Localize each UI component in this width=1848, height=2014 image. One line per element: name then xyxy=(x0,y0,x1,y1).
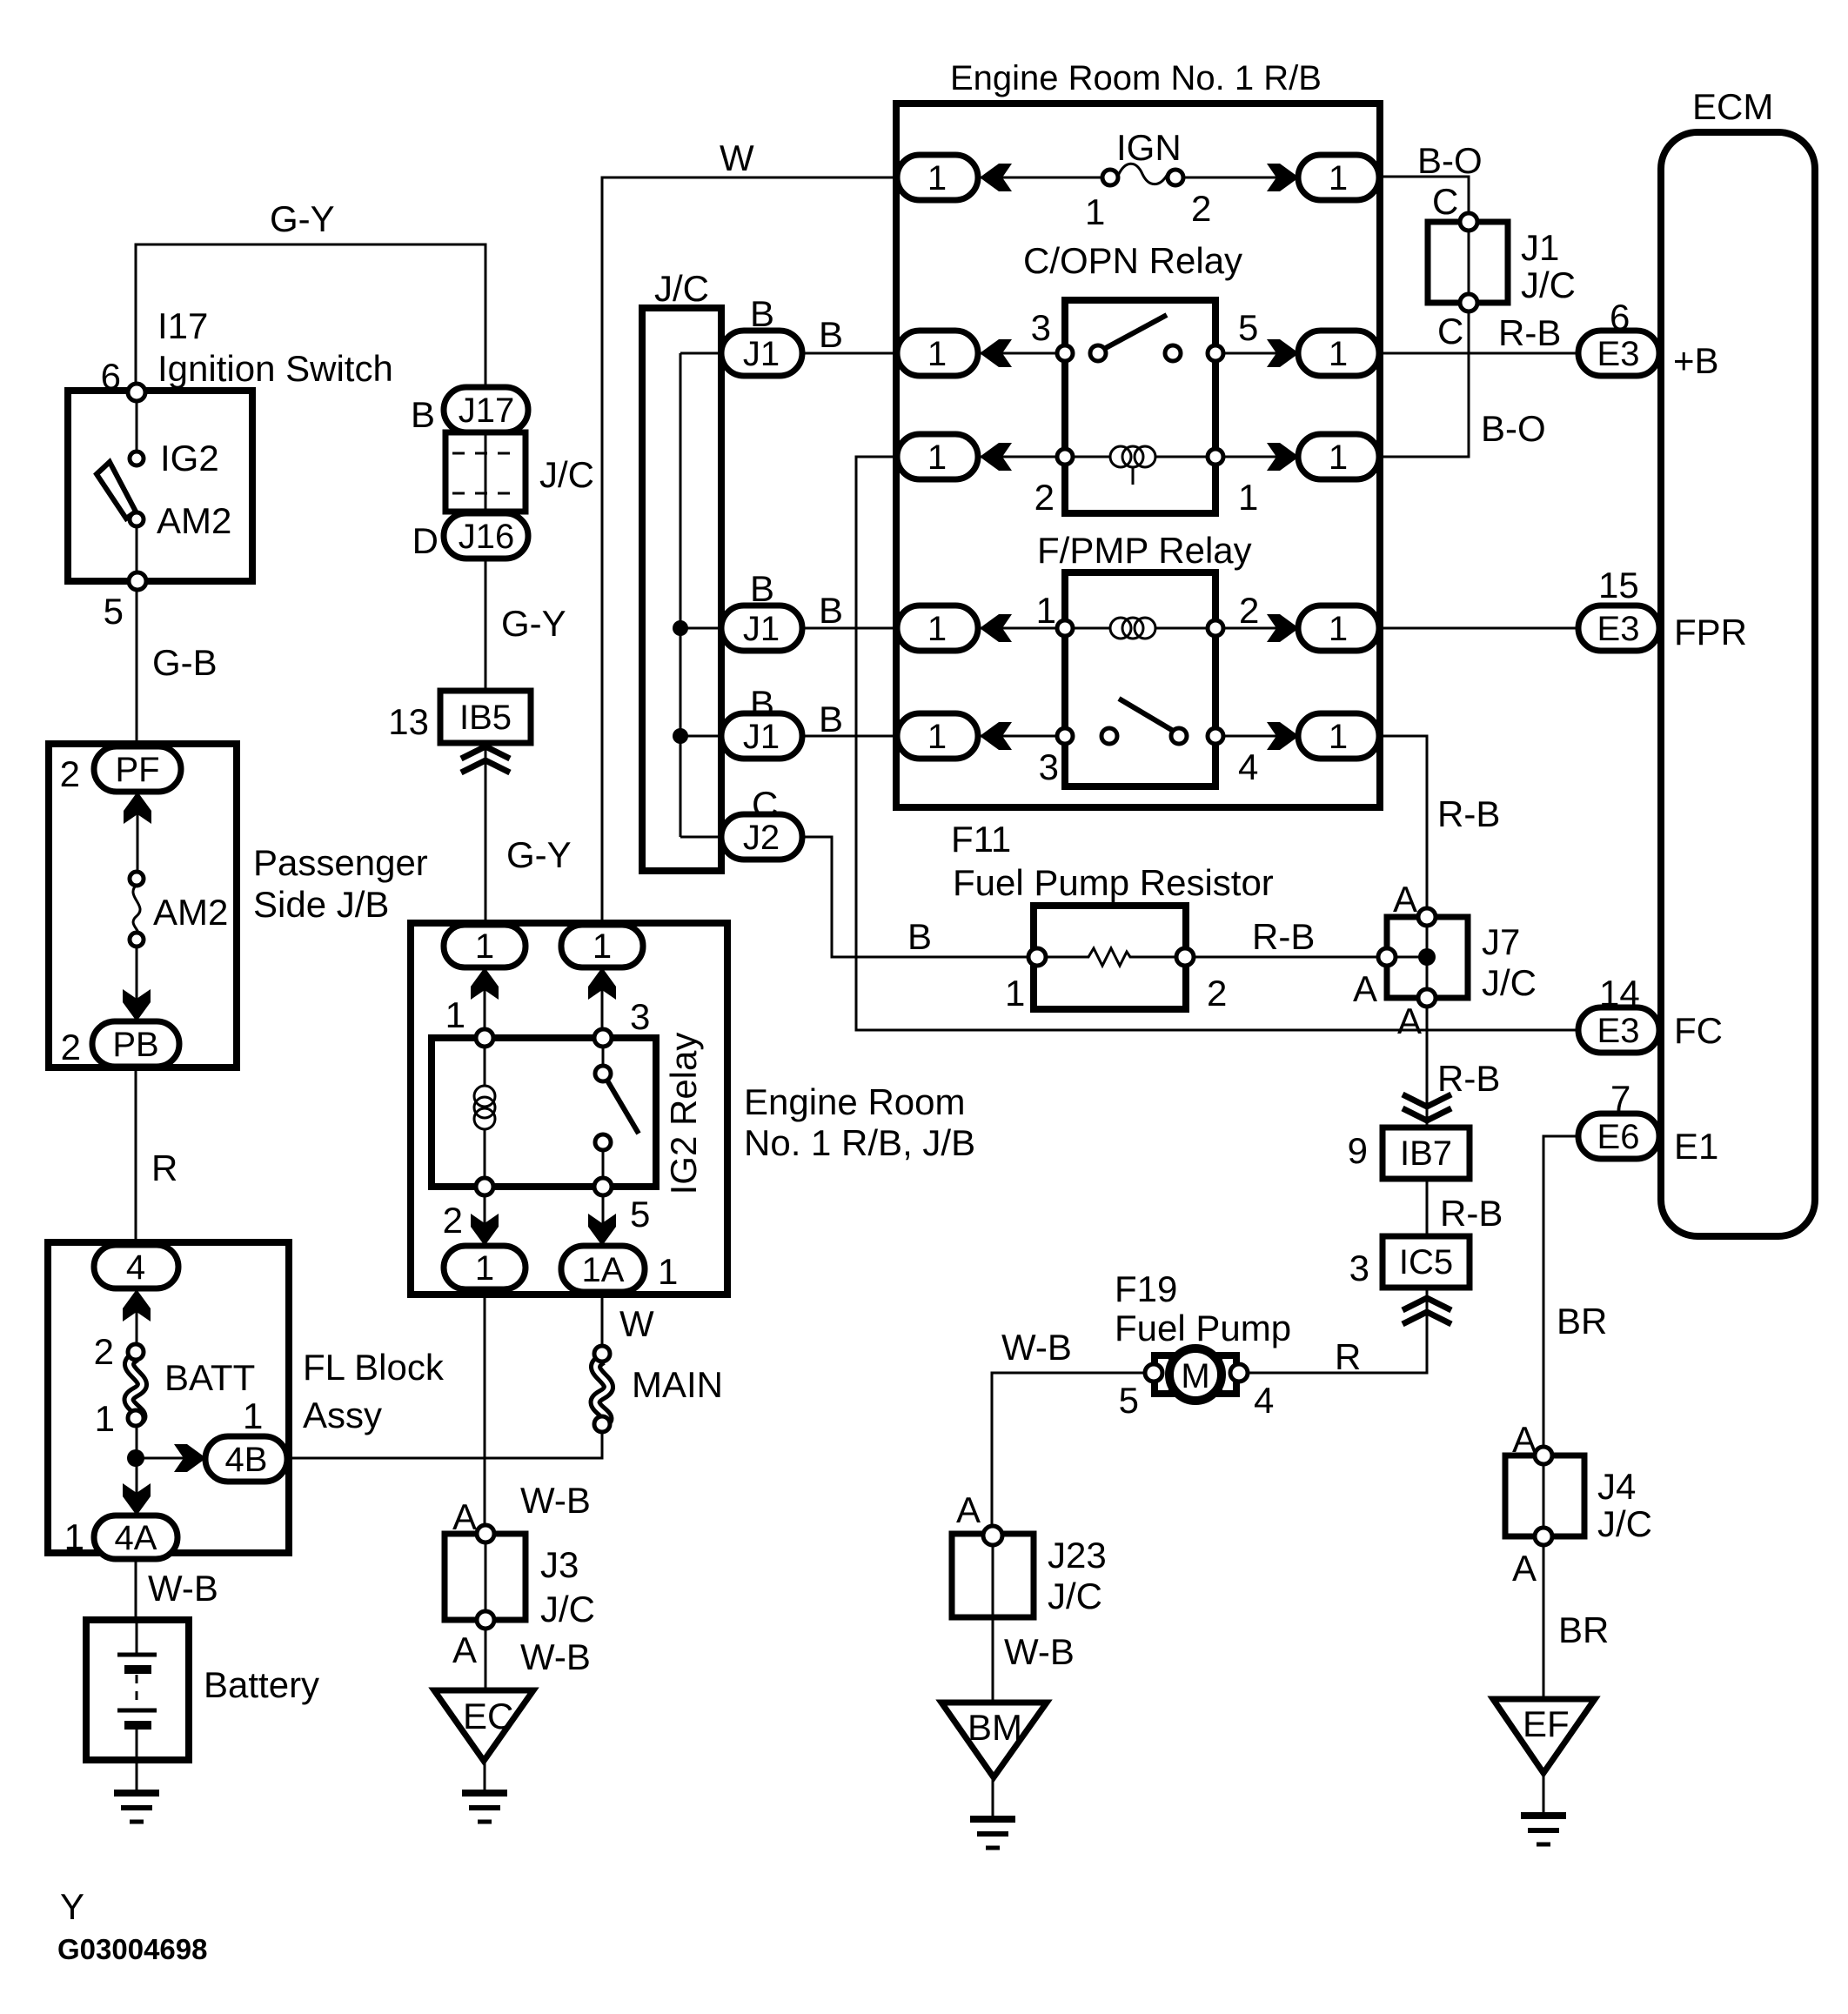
EC ground triangle xyxy=(434,1690,533,1761)
svg-text:4: 4 xyxy=(126,1248,145,1287)
pin circle J7 top xyxy=(1418,908,1436,926)
svg-text:1: 1 xyxy=(475,1249,494,1288)
svg-text:1: 1 xyxy=(1329,718,1348,756)
svg-text:Y: Y xyxy=(60,1886,84,1927)
svg-text:B: B xyxy=(750,293,774,334)
arrow into IG2 out 1A xyxy=(588,1214,616,1246)
svg-text:IB7: IB7 xyxy=(1400,1134,1452,1173)
J/C junction block J17-J16 xyxy=(445,432,526,512)
IGN fuse xyxy=(1102,164,1183,185)
IC5 block xyxy=(1383,1236,1470,1288)
svg-text:E6: E6 xyxy=(1597,1118,1640,1156)
svg-text:J1: J1 xyxy=(743,335,780,373)
pin circle J4 top xyxy=(1535,1447,1552,1464)
svg-text:2: 2 xyxy=(60,753,80,794)
svg-text:W-B: W-B xyxy=(1004,1631,1075,1672)
svg-text:6: 6 xyxy=(101,356,121,397)
arrow into IG2 relay 1 left xyxy=(471,967,499,1000)
wire B-O J1 J/C to C/OPN coil connector xyxy=(1379,308,1469,457)
svg-text:FL Block: FL Block xyxy=(303,1347,445,1388)
svg-text:3: 3 xyxy=(630,996,650,1037)
arrow C/OPN switch left xyxy=(980,339,1012,367)
arrow into PB xyxy=(123,989,151,1021)
wire J3 internal xyxy=(485,1536,487,1620)
wire G-Y net: ignition pin6 up, across, down to J17 xyxy=(136,244,485,392)
arrow into 4B xyxy=(174,1444,206,1472)
junction connector tall box xyxy=(642,308,721,871)
svg-text:2: 2 xyxy=(1034,477,1055,518)
I17 ignition switch box xyxy=(68,391,252,581)
svg-text:J17: J17 xyxy=(459,391,515,430)
wire J/C bus inside junction block xyxy=(680,353,723,837)
svg-text:G-Y: G-Y xyxy=(501,603,566,644)
svg-text:AM2: AM2 xyxy=(153,892,228,933)
wire EC triangle to ground xyxy=(484,1759,486,1791)
svg-text:E3: E3 xyxy=(1597,1012,1640,1050)
battery cell plates xyxy=(117,1655,157,1725)
svg-text:J/C: J/C xyxy=(1597,1503,1652,1544)
wire F/PMP switch row right xyxy=(1215,735,1300,738)
connector oval E3 FPR xyxy=(1578,606,1659,651)
svg-text:1: 1 xyxy=(1329,610,1348,648)
ignition pin 6 contact xyxy=(128,384,145,401)
svg-text:D: D xyxy=(412,520,439,561)
connector oval ER left coil 1 xyxy=(897,434,978,479)
wire F/PMP coil row left xyxy=(978,627,1065,630)
J4 J/C box xyxy=(1505,1455,1584,1536)
connector oval J1 row3 xyxy=(721,713,802,759)
svg-text:1: 1 xyxy=(64,1516,84,1557)
ignition switch lever xyxy=(97,462,136,519)
svg-text:EF: EF xyxy=(1523,1703,1570,1744)
wire FL block internal BATT link to 4A with junction xyxy=(136,1424,138,1517)
pin circle J1 J/C bottom xyxy=(1460,294,1477,311)
svg-text:FPR: FPR xyxy=(1674,612,1747,652)
F/PMP relay box xyxy=(1065,572,1215,786)
wire F/PMP switch row left xyxy=(978,735,1065,738)
svg-text:J16: J16 xyxy=(459,518,515,556)
pin circle J3 bottom xyxy=(477,1611,494,1629)
wire J7 internal horizontal xyxy=(1390,956,1427,959)
svg-text:1: 1 xyxy=(243,1395,263,1436)
svg-text:AM2: AM2 xyxy=(157,500,231,541)
svg-text:J/C: J/C xyxy=(1482,962,1537,1003)
wire battery to ground xyxy=(136,1760,138,1791)
pin circle J4 bottom xyxy=(1535,1528,1552,1545)
pin circle J7 bottom xyxy=(1418,989,1436,1007)
svg-text:A: A xyxy=(1512,1548,1537,1589)
wire C/OPN switch row left xyxy=(978,352,1065,355)
wire IG2 relay internal left leg xyxy=(484,966,486,1248)
junction dot FL block xyxy=(127,1449,144,1467)
svg-text:J1: J1 xyxy=(1521,227,1559,268)
connector oval IG2 out right 1A xyxy=(561,1246,645,1292)
svg-text:2: 2 xyxy=(1239,590,1259,631)
arrow F/PMP coil right xyxy=(1267,614,1299,642)
svg-text:4: 4 xyxy=(1238,746,1258,787)
wire B J2 to fuel pump resistor xyxy=(800,837,1037,957)
svg-text:7: 7 xyxy=(1610,1078,1630,1119)
wire BM triangle to ground xyxy=(992,1776,994,1817)
J1 J/C box near ECM xyxy=(1428,222,1508,303)
svg-text:PF: PF xyxy=(115,751,159,789)
arrow F/PMP switch right xyxy=(1267,722,1299,750)
wire J4 internal xyxy=(1543,1449,1545,1536)
arrow into 4A xyxy=(123,1483,151,1516)
AM2 fuse in passenger J/B xyxy=(130,872,144,947)
arrow into IG2 out 1 xyxy=(471,1214,499,1246)
wire C/OPN switch row right xyxy=(1215,352,1300,355)
arrow IGN row left xyxy=(980,164,1012,191)
wire EF triangle to ground xyxy=(1543,1771,1545,1814)
arrow into PF xyxy=(124,792,151,824)
wire B J1 row3 to engine room xyxy=(800,735,899,738)
wire MAIN fuse to 1A connector xyxy=(601,1294,604,1348)
svg-text:BATT: BATT xyxy=(164,1357,255,1398)
arrow into IG2 relay 1 right xyxy=(588,967,616,1000)
ground battery xyxy=(114,1793,159,1822)
svg-text:4A: 4A xyxy=(115,1519,157,1557)
connector oval PB xyxy=(92,1021,179,1067)
wire IG2 relay internal right leg xyxy=(602,966,603,1248)
svg-text:1: 1 xyxy=(927,335,947,373)
svg-text:B-O: B-O xyxy=(1417,140,1483,181)
svg-text:R: R xyxy=(1335,1336,1361,1377)
svg-text:1: 1 xyxy=(927,159,947,197)
connector oval ER right IGN 1 xyxy=(1298,155,1379,200)
svg-text:W-B: W-B xyxy=(520,1636,591,1677)
ignition IG2 contact xyxy=(130,452,144,465)
junction dot J/C bus row3 xyxy=(673,728,688,744)
ECM box xyxy=(1661,132,1815,1236)
svg-text:1A: 1A xyxy=(582,1251,625,1289)
IB5 block xyxy=(440,691,531,743)
wire G-Y J16 to IB5 xyxy=(485,558,487,693)
wire B J1 row1 to engine room xyxy=(800,352,899,355)
connector oval ER right sw 1 xyxy=(1298,331,1379,376)
svg-text:BM: BM xyxy=(968,1707,1022,1748)
svg-text:IB5: IB5 xyxy=(459,699,512,737)
wire F/PMP coil row right xyxy=(1215,627,1300,630)
svg-text:R-B: R-B xyxy=(1252,916,1315,957)
wire W-B 4A to battery xyxy=(135,1557,137,1622)
svg-text:W-B: W-B xyxy=(148,1568,218,1609)
svg-text:W-B: W-B xyxy=(520,1480,591,1521)
arrow F/PMP switch left xyxy=(980,722,1012,750)
svg-text:J/C: J/C xyxy=(1048,1576,1102,1616)
BATT fusible link xyxy=(128,1344,144,1426)
ground BM xyxy=(970,1819,1015,1848)
svg-text:6: 6 xyxy=(1610,297,1630,338)
IB5 page chevrons xyxy=(461,746,510,773)
svg-text:A: A xyxy=(1393,879,1417,920)
svg-text:1: 1 xyxy=(593,927,612,966)
svg-text:J3: J3 xyxy=(540,1544,579,1585)
svg-text:E3: E3 xyxy=(1597,610,1640,648)
pin circle J7 left xyxy=(1378,948,1396,966)
wire FC net from C/OPN coil connector to ECM xyxy=(856,457,1580,1030)
svg-text:G-Y: G-Y xyxy=(270,198,335,239)
svg-text:1: 1 xyxy=(1036,590,1056,631)
battery box xyxy=(86,1620,189,1760)
svg-text:5: 5 xyxy=(104,591,124,632)
pin circle J3 top xyxy=(477,1525,494,1542)
EF ground triangle xyxy=(1493,1699,1595,1773)
connector oval E3 FC xyxy=(1578,1007,1659,1053)
svg-text:J7: J7 xyxy=(1482,921,1520,962)
svg-text:J/C: J/C xyxy=(540,1589,595,1629)
arrow C/OPN coil left xyxy=(980,443,1012,471)
svg-text:J/C: J/C xyxy=(1521,264,1576,305)
svg-text:J23: J23 xyxy=(1048,1535,1107,1576)
svg-text:W: W xyxy=(720,137,754,178)
IB7 page chevrons xyxy=(1403,1094,1451,1121)
arrow C/OPN switch right xyxy=(1267,339,1299,367)
MAIN fusible link xyxy=(594,1346,610,1432)
svg-text:B: B xyxy=(411,394,435,435)
wire IGN fuse row xyxy=(978,177,1300,179)
wire BR E6 to J4 xyxy=(1543,1136,1580,1449)
svg-text:Fuel Pump Resistor: Fuel Pump Resistor xyxy=(953,862,1274,903)
wire R-B resistor to J7 xyxy=(1188,956,1383,959)
C/OPN relay box xyxy=(1065,300,1215,513)
svg-text:Ignition Switch: Ignition Switch xyxy=(157,348,393,389)
wire ignition internal AM2 contact to pin5 xyxy=(136,525,138,581)
svg-text:2: 2 xyxy=(61,1027,81,1067)
svg-text:Side J/B: Side J/B xyxy=(253,884,389,925)
svg-text:1: 1 xyxy=(927,610,947,648)
wire FPR row to ECM xyxy=(1379,627,1580,630)
svg-text:IC5: IC5 xyxy=(1399,1243,1453,1281)
IG2 relay switch xyxy=(594,1029,639,1195)
svg-text:2: 2 xyxy=(94,1331,114,1372)
svg-text:C: C xyxy=(752,784,778,825)
wire FL block branch to 4B xyxy=(136,1457,209,1460)
svg-text:Engine Room: Engine Room xyxy=(744,1081,965,1122)
arrow IGN row right xyxy=(1267,164,1299,191)
svg-text:Engine Room No. 1 R/B: Engine Room No. 1 R/B xyxy=(950,59,1322,97)
svg-text:ECM: ECM xyxy=(1692,86,1773,127)
svg-text:3: 3 xyxy=(1349,1248,1369,1288)
svg-text:5: 5 xyxy=(630,1194,650,1234)
svg-text:B: B xyxy=(750,568,774,609)
arrow into FL 4 xyxy=(123,1289,151,1321)
wire J1 J/C internal xyxy=(1468,217,1470,308)
svg-text:B: B xyxy=(750,683,774,724)
svg-text:5: 5 xyxy=(1119,1380,1139,1421)
wire J7 internal vertical xyxy=(1426,912,1429,998)
svg-text:W-B: W-B xyxy=(1001,1327,1072,1368)
connector oval ER left fsw 1 xyxy=(897,713,978,759)
wire R-B IB7 to IC5 xyxy=(1426,1179,1429,1236)
svg-text:1: 1 xyxy=(1005,973,1025,1014)
svg-text:15: 15 xyxy=(1598,565,1639,606)
svg-text:J/C: J/C xyxy=(654,268,709,309)
wire B-O row1 to J1 junction xyxy=(1379,177,1469,217)
svg-text:Fuel Pump: Fuel Pump xyxy=(1115,1308,1291,1348)
svg-text:R-B: R-B xyxy=(1440,1193,1503,1234)
svg-text:A: A xyxy=(452,1629,477,1670)
connector oval ER right fcoil 1 xyxy=(1298,606,1379,651)
svg-text:R-B: R-B xyxy=(1437,1058,1500,1099)
svg-text:C: C xyxy=(1432,181,1458,222)
IB7 block xyxy=(1383,1127,1470,1179)
svg-text:5: 5 xyxy=(1238,307,1258,348)
svg-text:2: 2 xyxy=(1191,188,1211,229)
connector oval ER right coil 1 xyxy=(1298,434,1379,479)
svg-text:3: 3 xyxy=(1039,746,1059,787)
wire J23 internal and down to BM xyxy=(992,1536,994,1703)
svg-text:R: R xyxy=(151,1148,177,1188)
svg-text:A: A xyxy=(1353,968,1377,1009)
wire G-Y IB5 to IG2 relay connector 1 xyxy=(485,741,487,927)
svg-text:E3: E3 xyxy=(1597,335,1640,373)
svg-text:Assy: Assy xyxy=(303,1395,382,1435)
svg-text:+B: +B xyxy=(1673,340,1719,381)
svg-text:BR: BR xyxy=(1557,1301,1607,1342)
svg-text:G-B: G-B xyxy=(152,642,218,683)
svg-text:A: A xyxy=(1397,1000,1422,1041)
pin circle J23 top xyxy=(983,1526,1002,1545)
svg-text:I17: I17 xyxy=(157,305,208,346)
engine room No.1 R/B J/B box (IG2 relay outer) xyxy=(411,923,727,1295)
svg-text:Passenger: Passenger xyxy=(253,842,428,883)
wire G-B pin5 to PF xyxy=(136,581,138,748)
J23 J/C box xyxy=(952,1534,1034,1617)
connector oval J2 xyxy=(721,814,802,860)
wire R-B switch output to J7 xyxy=(1379,736,1427,912)
F/PMP relay coil xyxy=(1057,618,1223,639)
connector oval E6 E1 xyxy=(1578,1114,1659,1159)
svg-text:1: 1 xyxy=(1329,438,1348,477)
connector oval 4A xyxy=(94,1516,177,1559)
svg-text:R-B: R-B xyxy=(1498,312,1561,353)
svg-text:1: 1 xyxy=(445,994,465,1035)
svg-text:PB: PB xyxy=(112,1026,158,1064)
ignition AM2 contact xyxy=(130,512,144,526)
wire R net PB to FL block connector 4 xyxy=(135,1065,137,1247)
connector oval IG2 in right 1 xyxy=(561,925,643,967)
IG2 relay coil xyxy=(474,1029,495,1195)
svg-text:2: 2 xyxy=(1207,973,1227,1014)
svg-text:3: 3 xyxy=(1031,307,1051,348)
wire battery internal xyxy=(136,1622,138,1760)
svg-text:R-B: R-B xyxy=(1437,793,1500,834)
svg-text:BR: BR xyxy=(1558,1609,1609,1650)
wire G-Y IG2 relay output to J3 xyxy=(484,1288,486,1536)
svg-text:W: W xyxy=(619,1303,654,1344)
connector oval ER left sw 1 xyxy=(897,331,978,376)
svg-text:A: A xyxy=(956,1489,981,1530)
svg-text:Battery: Battery xyxy=(204,1664,319,1705)
svg-text:1: 1 xyxy=(1085,191,1105,232)
C/OPN relay switch contacts xyxy=(1057,315,1223,361)
wire passenger J/B internal PF to AM2 fuse xyxy=(137,790,139,872)
ignition pin 5 contact xyxy=(129,572,146,590)
svg-text:J1: J1 xyxy=(743,610,780,648)
connector oval E3 +B xyxy=(1578,331,1659,376)
svg-text:1: 1 xyxy=(1329,335,1348,373)
svg-text:M: M xyxy=(1181,1357,1209,1395)
wire R-B J7 down to IB7 xyxy=(1426,998,1429,1127)
F11 fuel pump resistor box xyxy=(1034,906,1186,1009)
svg-text:C: C xyxy=(1437,311,1463,351)
wire R IC5 to fuel pump xyxy=(1246,1288,1427,1373)
arrow C/OPN coil right xyxy=(1267,443,1299,471)
svg-text:MAIN: MAIN xyxy=(632,1364,723,1405)
svg-text:B: B xyxy=(819,699,843,739)
FL block assy box xyxy=(48,1242,289,1553)
wire B J1 row2 to engine room xyxy=(800,627,899,630)
svg-text:4: 4 xyxy=(1254,1380,1274,1421)
svg-text:FC: FC xyxy=(1674,1010,1723,1051)
BM ground triangle xyxy=(941,1703,1047,1777)
ground EC xyxy=(462,1793,507,1822)
IG2 relay inner box xyxy=(432,1038,656,1187)
wire ignition internal pin6 to IG2 contact xyxy=(136,392,138,452)
fuel pump resistor element xyxy=(1028,948,1194,966)
wire R-B +B row to ECM xyxy=(1379,352,1580,355)
svg-text:No. 1 R/B, J/B: No. 1 R/B, J/B xyxy=(744,1122,975,1163)
svg-text:A: A xyxy=(1512,1419,1537,1460)
svg-text:B: B xyxy=(819,314,843,355)
F/PMP relay switch contacts xyxy=(1057,699,1223,744)
svg-text:14: 14 xyxy=(1599,973,1640,1014)
wire BR J4 to EF triangle xyxy=(1543,1536,1545,1701)
svg-text:E1: E1 xyxy=(1674,1126,1718,1167)
connector oval PF xyxy=(94,746,181,792)
wire W net: top run and drop to IG2 relay xyxy=(602,177,899,927)
wire passenger J/B internal AM2 fuse to PB xyxy=(136,946,138,1023)
connector oval J16 xyxy=(444,513,528,559)
svg-text:F19: F19 xyxy=(1115,1268,1177,1309)
connector oval J1 row1 xyxy=(721,331,802,376)
wire 4B to MAIN fuse xyxy=(287,1430,602,1458)
svg-text:1: 1 xyxy=(927,718,947,756)
svg-text:4B: 4B xyxy=(225,1441,268,1479)
svg-text:1: 1 xyxy=(658,1251,678,1292)
svg-text:EC: EC xyxy=(463,1696,513,1736)
svg-text:J/C: J/C xyxy=(539,454,594,495)
C/OPN relay coil xyxy=(1057,446,1223,485)
connector oval ER right fsw 1 xyxy=(1298,713,1379,759)
junction dot J/C bus row2 xyxy=(673,620,688,636)
wire C/OPN coil row right xyxy=(1215,456,1300,458)
arrow F/PMP coil left xyxy=(980,614,1012,642)
wire W-B fuel pump to J23 xyxy=(992,1373,1147,1528)
svg-text:1: 1 xyxy=(95,1398,115,1439)
J7 J/C box xyxy=(1387,917,1468,998)
svg-text:G03004698: G03004698 xyxy=(57,1933,208,1965)
svg-text:2: 2 xyxy=(443,1200,463,1241)
svg-text:1: 1 xyxy=(475,927,494,966)
svg-text:1: 1 xyxy=(927,438,947,477)
IC5 page chevrons xyxy=(1403,1298,1451,1324)
svg-text:A: A xyxy=(452,1496,477,1537)
connector oval J1 row2 xyxy=(721,606,802,651)
junction dot J7 xyxy=(1418,948,1436,966)
F19 fuel pump motor xyxy=(1145,1348,1248,1401)
wire FL block internal 4 to BATT link xyxy=(136,1288,138,1346)
connector oval J17 xyxy=(444,387,528,432)
svg-text:B: B xyxy=(907,916,932,957)
svg-text:J4: J4 xyxy=(1597,1466,1636,1507)
connector oval ER left fcoil 1 xyxy=(897,606,978,651)
svg-text:C/OPN Relay: C/OPN Relay xyxy=(1023,240,1242,281)
svg-text:13: 13 xyxy=(388,701,429,742)
connector oval IG2 out left 1 xyxy=(444,1246,526,1289)
svg-text:1: 1 xyxy=(1238,477,1258,518)
